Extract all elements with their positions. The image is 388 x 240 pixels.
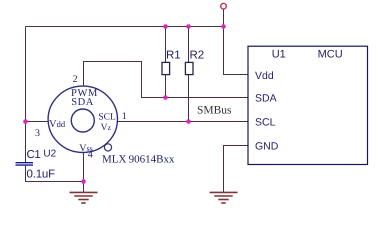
svg-text:2: 2 [73,74,78,85]
wire left Vdd rail down to C1 [25,27,27,163]
svg-text:GND: GND [255,141,279,153]
wire C1 bottom to ground net [26,166,84,182]
junction node Vdd-left [23,119,28,124]
svg-text:MLX 90614Bxx: MLX 90614Bxx [102,153,175,165]
resistor R2 body [185,62,193,74]
svg-text:SCL: SCL [98,113,116,123]
svg-text:R1: R1 [166,50,181,62]
ground symbol right [210,192,238,203]
power terminal VDD circle [221,3,227,9]
wire SDA net from sensor pin 2 to MCU [84,62,249,98]
wire power terminal to MCU Vdd pin [224,9,249,75]
svg-text:C1: C1 [27,149,41,161]
svg-text:R2: R2 [190,50,205,62]
sensor U2 outer body circle [48,86,117,152]
junction node rail-R2 [186,24,191,29]
svg-text:3: 3 [35,128,40,139]
sensor U2 index small circle [104,144,111,151]
MCU U1 box [248,46,368,164]
wire sensor Vss pin 4 to ground net [83,153,85,192]
svg-text:U2: U2 [43,148,56,159]
wire sensor Vdd pin 3 [26,121,49,123]
junction node R1-SDA [163,95,168,100]
svg-text:SDA: SDA [71,97,94,108]
svg-text:Vdd: Vdd [255,70,274,82]
svg-text:SDA: SDA [255,93,277,105]
sensor U2 inner circle [71,109,94,132]
svg-text:SCL: SCL [255,116,276,128]
svg-text:SMBus: SMBus [197,104,232,116]
wire MCU GND pin to ground [224,146,249,193]
wire top Vdd rail [26,26,224,28]
junction node rail-power [221,24,226,29]
junction node rail-R1 [163,24,168,29]
svg-text:0.1uF: 0.1uF [27,168,56,180]
wire SCL net from sensor pin 1 to MCU [118,121,249,123]
resistor R1 body [162,62,170,74]
junction node R2-SCL [186,119,191,124]
junction node Vss-ground [81,179,86,184]
wire R2 leads [188,27,190,122]
svg-text:MCU: MCU [318,48,343,60]
ground symbol left [70,192,98,203]
svg-text:4: 4 [88,150,93,161]
svg-text:Vdd: Vdd [49,119,66,130]
wire R1 leads [165,27,167,98]
capacitor C1 plates [16,163,34,165]
svg-text:Vz: Vz [101,123,112,133]
svg-text:U1: U1 [272,48,286,60]
svg-text:1: 1 [122,111,127,122]
